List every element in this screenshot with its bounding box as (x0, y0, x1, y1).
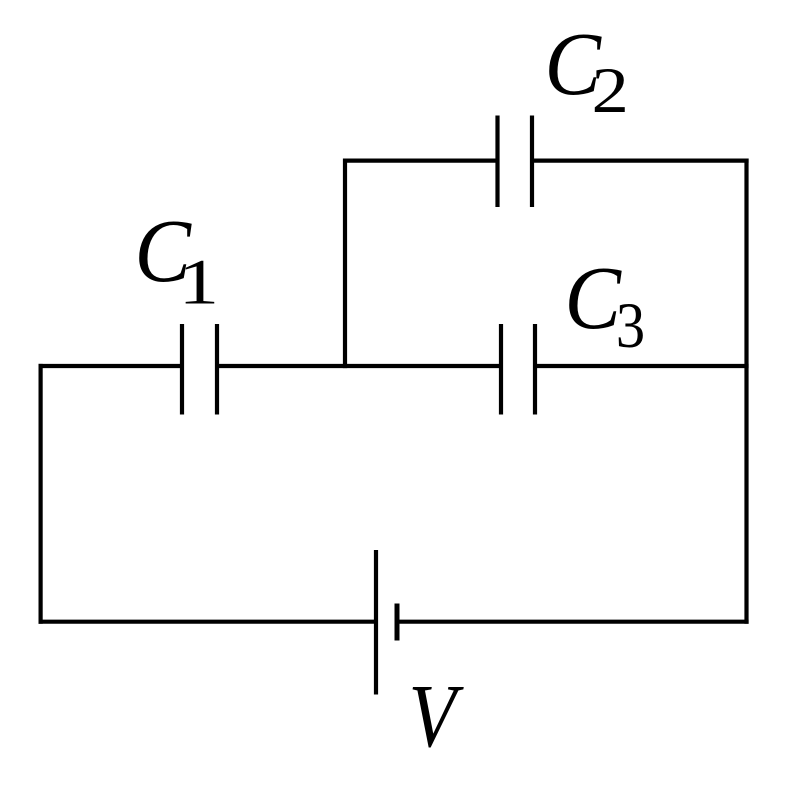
svg-text:3: 3 (616, 290, 645, 361)
svg-text:V: V (409, 667, 465, 766)
svg-text:C: C (565, 248, 623, 348)
svg-text:1: 1 (179, 245, 220, 317)
svg-text:2: 2 (592, 55, 629, 126)
